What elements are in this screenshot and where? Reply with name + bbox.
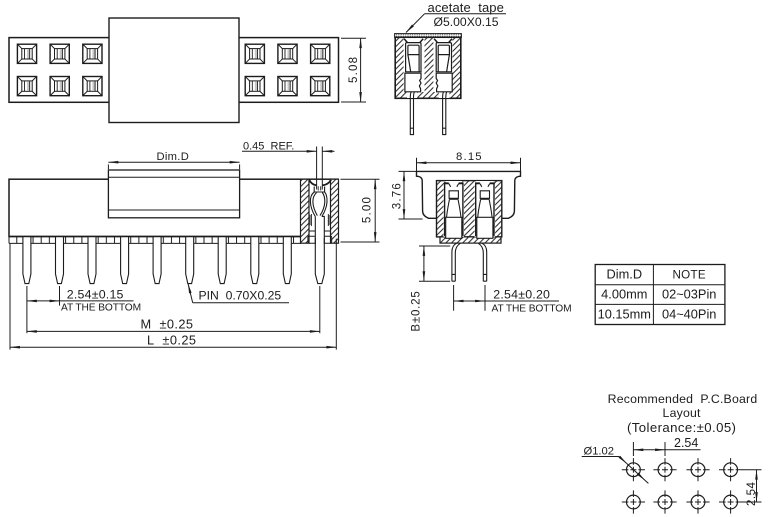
svg-text:B±0.25: B±0.25: [411, 290, 423, 331]
rib ladder right: [328, 214, 330, 226]
pcb holes: [622, 458, 742, 513]
hole r1c3: [686, 458, 709, 481]
svg-text:10.15mm: 10.15mm: [598, 306, 651, 321]
left arm: [310, 192, 315, 216]
svg-text:4.00mm: 4.00mm: [601, 287, 647, 302]
socket pad A1: [17, 44, 36, 63]
leg channel 2: [439, 92, 450, 98]
leader to tape: [425, 13, 507, 15]
cavity 1: [444, 184, 465, 237]
pin 6: [186, 237, 194, 284]
svg-text:2.54: 2.54: [674, 436, 698, 450]
socket pad B3: [83, 77, 102, 96]
svg-text:NOTE: NOTE: [672, 269, 705, 282]
section cavity contact (front tulip): [309, 147, 331, 245]
socket pad B2: [50, 77, 69, 96]
contact foot left: [308, 236, 316, 243]
svg-text:(Tolerance:±0.05): (Tolerance:±0.05): [627, 420, 736, 435]
socket pad A3: [83, 44, 102, 63]
svg-text:Dim.D: Dim.D: [607, 267, 643, 282]
dimension 2.54 vertical: [742, 470, 762, 506]
contact 2 (tulip): [475, 181, 495, 238]
pin 4: [121, 237, 129, 284]
neck box: [314, 187, 324, 193]
cavity 2: [433, 38, 452, 92]
right arm: [322, 192, 327, 216]
hole r1c4: [719, 458, 742, 481]
neck extension lines 0.45: [316, 147, 318, 190]
dimension M ±0.25: [27, 286, 320, 333]
svg-text:PIN 0.70X0.25: PIN 0.70X0.25: [199, 289, 282, 303]
dimension 5.08: [341, 38, 366, 102]
front body: [9, 179, 338, 236]
svg-text:5.08: 5.08: [348, 56, 360, 83]
dimension 3.76: [392, 171, 423, 219]
funnel: [309, 180, 331, 186]
socket pad B8: [245, 77, 264, 96]
svg-text:Ø5.00X0.15: Ø5.00X0.15: [434, 15, 499, 29]
pin 10 (section tail): [315, 237, 324, 284]
svg-text:02~03Pin: 02~03Pin: [662, 287, 716, 302]
hole r2c1: [622, 490, 645, 513]
tail channel: [315, 216, 324, 244]
svg-text:2.54±0.20: 2.54±0.20: [493, 287, 550, 301]
cavity floor patch: [310, 236, 330, 238]
pin 1: [23, 237, 31, 284]
acetate tape strip: [395, 34, 462, 38]
pin 3: [88, 237, 96, 284]
hole r2c4: [719, 490, 742, 513]
pin 5: [153, 237, 161, 284]
contact foot right: [324, 236, 332, 243]
socket pad A8: [245, 44, 264, 63]
hole r2c2: [653, 490, 676, 513]
section wall left (front): [301, 179, 310, 243]
cavity 2: [475, 184, 496, 237]
dimension 8.15: [417, 151, 521, 176]
svg-text:2.54±0.15: 2.54±0.15: [67, 287, 124, 301]
dimension 2.54±0.20: [454, 285, 572, 314]
svg-text:Recommended P.C.Board: Recommended P.C.Board: [608, 392, 758, 406]
section wall right (front): [331, 179, 339, 243]
dimension B±0.25: [411, 246, 451, 332]
body silhouette: [417, 171, 521, 218]
socket pad A10: [311, 44, 330, 63]
svg-text:AT THE BOTTOM: AT THE BOTTOM: [492, 303, 572, 314]
dimension 5.00: [341, 179, 380, 242]
cavity 1: [404, 38, 425, 92]
svg-text:Dim.D: Dim.D: [157, 151, 190, 163]
hole r1c1: [622, 458, 645, 481]
pins front view: [23, 237, 324, 284]
table frame: [595, 265, 725, 325]
pin 8: [251, 237, 259, 284]
leg channel 1: [407, 92, 418, 98]
svg-text:Ø1.02: Ø1.02: [584, 446, 614, 458]
contact 1 (tulip): [444, 181, 464, 238]
svg-text:8.15: 8.15: [456, 151, 483, 163]
section base: [440, 237, 501, 243]
socket pad B10: [311, 77, 330, 96]
svg-text:2.54: 2.54: [746, 482, 758, 506]
bottom comb band: [9, 237, 301, 244]
pin 7: [218, 237, 226, 284]
socket pad A9: [278, 44, 297, 63]
pin 9: [283, 237, 291, 284]
svg-text:L ±0.25: L ±0.25: [147, 333, 196, 348]
leg 2 (mid view): [478, 243, 486, 281]
body bottom edge over pins: [9, 236, 309, 238]
pin leg 1 (side view): [410, 92, 414, 135]
acetate tape (front view): [108, 170, 239, 218]
socket pad B9: [278, 77, 297, 96]
dimension 2.54±0.15: [27, 286, 141, 333]
svg-text:3.76: 3.76: [392, 182, 404, 209]
svg-text:acetate tape: acetate tape: [428, 0, 504, 15]
svg-text:AT THE BOTTOM: AT THE BOTTOM: [61, 303, 141, 314]
top view body: [9, 38, 339, 103]
connector body hatched: [395, 37, 461, 98]
dimension L ±0.25: [10, 239, 336, 350]
socket pad B1: [17, 77, 36, 96]
svg-text:0.45 REF.: 0.45 REF.: [243, 140, 294, 152]
hatched section block: [437, 181, 502, 237]
contact 2 (side profile): [434, 39, 452, 92]
svg-text:M ±0.25: M ±0.25: [141, 316, 194, 331]
pin leg 2 (side view): [443, 92, 447, 135]
rib ladder left: [309, 214, 311, 226]
contact 1 (side profile): [404, 39, 423, 92]
acetate tape (top view): [109, 18, 239, 123]
leg 1 (mid view): [452, 243, 460, 281]
svg-text:5.00: 5.00: [362, 196, 374, 223]
dimension Dim.D: [108, 151, 239, 169]
svg-text:04~40Pin: 04~40Pin: [662, 306, 716, 321]
dimension 0.45 REF.: [242, 140, 335, 152]
hole r2c3: [686, 490, 709, 513]
pin 2: [56, 237, 64, 284]
label PIN 0.70X0.25: [188, 284, 289, 303]
svg-text:Layout: Layout: [663, 406, 702, 420]
socket pad A2: [50, 44, 69, 63]
hole r1c2: [653, 458, 676, 481]
